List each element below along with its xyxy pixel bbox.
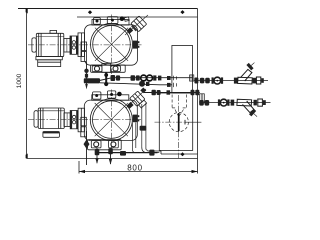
motor M1 foot tier 1 bbox=[36, 57, 62, 60]
nut after strainer bbox=[253, 78, 256, 84]
hidden funnel dashed lines bbox=[169, 95, 188, 132]
motor M1 end cap bbox=[32, 38, 36, 52]
valve cluster A3 (double ring) bbox=[141, 75, 147, 81]
pump 2 top bolt tab A bbox=[93, 92, 101, 99]
drain piping under pump 2 bbox=[84, 131, 160, 165]
pump 1 casing bbox=[85, 25, 138, 65]
junction box lower rect bbox=[159, 93, 192, 150]
pump 2 left port upper bbox=[81, 117, 87, 126]
pump 2 head outer circle bbox=[90, 99, 132, 141]
V1 stem fitting bbox=[126, 27, 133, 34]
pump 1 bottom tab B bbox=[111, 66, 121, 72]
pump 1 left port upper bbox=[81, 42, 87, 51]
box outlet stub right bbox=[184, 121, 201, 123]
pump 2 casing bbox=[84, 100, 137, 140]
SW vertical pipe pump2 bbox=[86, 131, 88, 165]
coupling pair bbox=[200, 78, 205, 84]
pump 2 bell flange bbox=[78, 108, 84, 132]
dimension 800 arrow left bbox=[79, 170, 85, 173]
valve B2 bbox=[139, 81, 145, 87]
V1 body rotated square bbox=[130, 16, 147, 33]
V2 body rotated square bbox=[130, 91, 145, 106]
pipe B line bbox=[100, 83, 172, 85]
V1 axis bbox=[125, 15, 148, 35]
Y-strainer S2 leg bbox=[243, 101, 254, 113]
Y-strainer S1 leg bbox=[241, 69, 252, 81]
pump 2 head inner circle bbox=[93, 101, 131, 139]
base plate bottom inner line bbox=[161, 153, 198, 155]
dimension 1000 tick top bbox=[26, 9, 28, 14]
flange pair at plate edge C bbox=[191, 90, 195, 95]
base plate bottom edge bbox=[27, 158, 198, 160]
pipe run C (pump2 discharge, y=92.5) bbox=[144, 90, 204, 103]
external run 1 (top, y=80.6) bbox=[190, 60, 268, 84]
pump 1 top bolt tab B bbox=[107, 17, 118, 24]
pump2 right port down tube bbox=[131, 123, 133, 150]
box plug dark bar bbox=[178, 113, 180, 131]
union stub at box wall B bbox=[167, 83, 171, 87]
flange at plate edge A bbox=[194, 78, 198, 84]
elbow down tube bbox=[200, 94, 205, 103]
base plate top inner line bbox=[77, 16, 198, 18]
valve body circle bbox=[220, 99, 227, 106]
pump 2 discharge boss bbox=[117, 92, 122, 97]
pump 1 head outer circle bbox=[91, 23, 133, 65]
coupling C2 bbox=[70, 111, 78, 129]
motor M1 body bbox=[36, 33, 64, 56]
end dark nipple bbox=[261, 78, 264, 83]
pipe run A (pump1 discharge, y=78) bbox=[100, 75, 193, 81]
left vertical pipe pump1 bbox=[86, 62, 88, 86]
pump 1 right port bbox=[133, 41, 138, 49]
pump 1 diagonal X bbox=[95, 28, 128, 61]
V2 stem fitting bbox=[127, 102, 134, 109]
anchor diamond bottom right bbox=[180, 152, 184, 156]
valve body circle bbox=[214, 77, 221, 84]
nut after strainer bbox=[254, 100, 257, 106]
nut before strainer bbox=[231, 100, 235, 106]
motor M2 foot plate bbox=[43, 132, 60, 138]
motor M1 axis centerline bbox=[28, 44, 142, 46]
box horizontal centerline bbox=[155, 121, 185, 123]
pump 1 vertical centerline bbox=[111, 15, 113, 75]
pump 1 bottom plate bbox=[91, 65, 126, 72]
motor M1 foot tier 2 bbox=[38, 60, 61, 67]
fitting on V2 down pipe bbox=[140, 126, 147, 131]
hidden circle in box bbox=[169, 113, 188, 132]
pump 2 diagonal X bbox=[95, 103, 128, 136]
bottom step line bbox=[148, 150, 162, 152]
motor M2 inner top line bbox=[38, 110, 64, 112]
bottom step vertical bbox=[160, 151, 162, 154]
nut before strainer bbox=[234, 78, 238, 84]
Y-strainer S2 body bbox=[237, 99, 252, 106]
pump 1 discharge boss bbox=[120, 16, 125, 21]
pipe C line bbox=[144, 92, 200, 94]
svg-text:1000: 1000 bbox=[16, 73, 23, 88]
pump 2 top bolt tab B bbox=[108, 91, 116, 98]
drain dark union bbox=[120, 151, 126, 156]
vertical tip bbox=[85, 84, 88, 89]
union tube before plate edge A bbox=[190, 75, 194, 81]
coupling A2 bbox=[131, 75, 136, 81]
tee manifold bar bbox=[84, 78, 100, 83]
base plate left edge bbox=[26, 9, 28, 159]
pipe A line bbox=[100, 78, 193, 81]
V2 outlet dark diamond bbox=[140, 88, 146, 94]
tab drop pipe bbox=[96, 148, 98, 163]
pump 1 bell flange bbox=[78, 33, 84, 57]
relief valve V1 on pump 1 (diagonal NE rotated flange) bbox=[124, 15, 148, 35]
anchor diamond top right bbox=[180, 10, 184, 14]
center drop pipe bbox=[110, 148, 112, 164]
dimension 800 extension left bbox=[78, 161, 80, 174]
pipe line bbox=[194, 80, 268, 82]
svg-text:800: 800 bbox=[127, 163, 142, 172]
V2 down pipe (double line) bbox=[141, 104, 143, 148]
base plate right edge bbox=[197, 9, 199, 174]
pump 2 vertical centerline bbox=[110, 90, 112, 150]
V1 top connector bits bbox=[124, 17, 129, 21]
end cap rect bbox=[256, 77, 260, 84]
pump 1 left port lower bbox=[81, 52, 87, 62]
motor M1 rib lines bbox=[38, 33, 40, 56]
coupling C1 bbox=[152, 90, 156, 95]
relief valve V2 on pump 2 (diagonal NE, feeds run C) bbox=[126, 88, 147, 153]
round fitting on vertical bbox=[84, 69, 88, 73]
box centerline vertical bbox=[178, 95, 180, 113]
drain horizontal line bbox=[97, 152, 158, 154]
valve flange right bbox=[227, 99, 229, 105]
pump 1 bottom center block bbox=[102, 63, 111, 72]
dimension 1000 tick bottom bbox=[26, 154, 28, 159]
pipe run B (pump1 suction) bbox=[84, 62, 177, 89]
pump 2 left port lower bbox=[81, 127, 87, 137]
end cap rect bbox=[258, 99, 263, 106]
pump 2 bottom tab B bbox=[109, 141, 119, 148]
pipe line bbox=[200, 102, 271, 104]
V2 lower-right rotated rect bbox=[139, 100, 147, 108]
SW diamond fitting bbox=[84, 140, 90, 149]
union stub at box wall bbox=[167, 76, 171, 80]
base plate top edge bbox=[18, 8, 198, 10]
pump 1 bottom tab A bbox=[92, 66, 102, 72]
external run 2 (bottom, y=102.6) bbox=[199, 99, 270, 119]
valve flange left bbox=[212, 77, 214, 83]
drain elbow from V2 down pipe bbox=[142, 148, 160, 153]
pump 1 top flange strip bbox=[92, 20, 129, 26]
pump 2 bottom tab A bbox=[91, 141, 101, 148]
nut C2 bbox=[167, 90, 171, 94]
motor M1 terminal box bbox=[50, 30, 57, 33]
motor M2 body bbox=[38, 108, 64, 129]
valve flange right bbox=[221, 77, 223, 83]
motor M2 end cap bbox=[34, 111, 38, 128]
coupling pair bbox=[199, 100, 204, 106]
anchor diamond top left bbox=[88, 10, 92, 14]
nut A4 bbox=[158, 76, 161, 81]
valve flange left bbox=[218, 99, 220, 105]
pump 1 head inner circle bbox=[93, 26, 131, 64]
motor M1 shaft step bbox=[64, 39, 70, 53]
motor M2 shaft step bbox=[64, 113, 70, 127]
coupling C1 bbox=[70, 36, 78, 54]
junction box upper rect bbox=[172, 46, 193, 94]
Y-strainer S2 leg cap bbox=[249, 109, 259, 119]
motor M2 axis centerline bbox=[28, 119, 141, 121]
motor M2 rib lines bbox=[40, 108, 42, 129]
motor M1 inner top line bbox=[36, 35, 64, 37]
pump 1 heavy drop pipe bbox=[105, 72, 107, 83]
dimension 800 line bbox=[79, 171, 198, 173]
Y-strainer S1 leg cap bbox=[246, 60, 256, 70]
pump 2 top flange strip bbox=[92, 95, 129, 101]
Y-strainer S1 body bbox=[238, 77, 253, 84]
valve cluster A1 bbox=[111, 75, 116, 81]
V2 axis bbox=[126, 89, 146, 108]
end dark nipple bbox=[263, 100, 266, 105]
dimension 800 arrow right bbox=[192, 170, 198, 173]
pump 1 top bolt tab A bbox=[94, 18, 101, 25]
pump 2 right port bbox=[133, 115, 138, 123]
pump 2 bottom plate bbox=[88, 140, 122, 150]
